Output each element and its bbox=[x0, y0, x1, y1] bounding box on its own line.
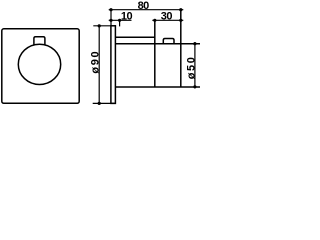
svg-text:80: 80 bbox=[138, 0, 150, 12]
svg-text:ø50: ø50 bbox=[185, 56, 197, 80]
side view: knob bottom edge / dim extension bbox=[115, 86, 200, 88]
front view: handle tab bbox=[34, 37, 45, 45]
dia90 bottom extension / plate bottom bbox=[93, 102, 116, 104]
dim dot dia50 bottom bbox=[193, 85, 196, 88]
svg-text:ø90: ø90 bbox=[90, 50, 102, 74]
dia90 dimension line bbox=[98, 25, 100, 105]
dim dot dia90 top bbox=[98, 24, 101, 27]
side view: body top edge bbox=[115, 36, 154, 38]
front view: knob circle bbox=[18, 44, 60, 84]
side view: knob front face / dim extension bbox=[180, 10, 182, 87]
dimension 80 line bbox=[109, 9, 184, 11]
side view: wall plate bbox=[111, 26, 116, 104]
dim dot 80 left bbox=[109, 8, 112, 11]
dim dot dia50 top bbox=[193, 42, 196, 45]
front view: square plate bbox=[2, 29, 79, 104]
dim dot 10 right bbox=[118, 19, 121, 22]
dimension 10 right extension stub bbox=[119, 20, 121, 26]
dim dot dia90 bottom bbox=[98, 102, 101, 105]
dia50 dimension line bbox=[194, 42, 196, 89]
dim dot 30 right bbox=[179, 19, 182, 22]
side view: step edge / dim extension bbox=[154, 20, 156, 87]
dim dot 30 left bbox=[153, 19, 156, 22]
wire: wall line / extension at x=111 bbox=[110, 10, 112, 26]
svg-text:10: 10 bbox=[121, 10, 133, 22]
svg-text:30: 30 bbox=[161, 10, 173, 22]
dia90 top extension bbox=[93, 25, 115, 27]
dim dot 10 left bbox=[109, 19, 112, 22]
side view: handle tab bbox=[163, 39, 174, 44]
dimension 10 line bbox=[109, 19, 132, 21]
side view: knob top edge / dim extension bbox=[115, 43, 200, 45]
dim dot 80 right bbox=[179, 8, 182, 11]
dimension 30 line bbox=[152, 19, 183, 21]
